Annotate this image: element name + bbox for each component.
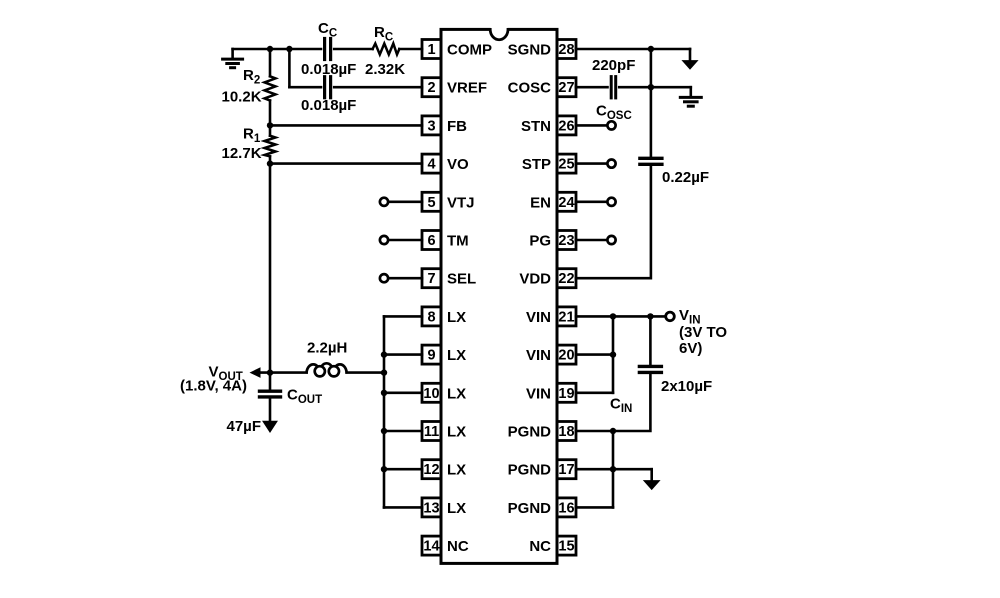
capacitor C022 plate bottom — [640, 163, 662, 166]
pin 18 box — [557, 422, 576, 441]
pin 24 box — [557, 192, 576, 211]
pin 14 box — [422, 536, 441, 555]
svg-text:5: 5 — [427, 195, 435, 211]
wire VO net: node to pin 4 — [270, 162, 422, 165]
svg-text:SEL: SEL — [447, 271, 476, 288]
pin 22 box — [557, 269, 576, 288]
ground arrow below COUT — [264, 422, 277, 432]
wire COMP net: RC to pin 1 — [399, 48, 422, 51]
ground arrow PGND (right) — [645, 469, 659, 489]
node: LX bus pin 9 junction — [381, 351, 387, 357]
pin 4 box — [422, 154, 441, 173]
open terminal circle VIN input — [666, 312, 675, 321]
svg-text:18: 18 — [558, 424, 574, 440]
svg-text:11: 11 — [424, 424, 439, 440]
pin 15 box — [557, 536, 576, 555]
svg-text:7: 7 — [427, 271, 435, 287]
pin 9 box — [422, 345, 441, 364]
wire VO net: vertical down to VOUT node — [269, 164, 272, 373]
svg-text:VREF: VREF — [447, 80, 487, 97]
wire LX node to inductor L1 — [347, 371, 384, 374]
svg-text:PGND: PGND — [508, 424, 552, 441]
svg-text:17: 17 — [558, 462, 574, 478]
svg-text:0.018µF: 0.018µF — [301, 61, 356, 78]
wire VREF net: C2 to pin 2 — [334, 86, 422, 89]
svg-text:23: 23 — [558, 233, 574, 249]
capacitor C220 plate left — [610, 77, 613, 98]
resistor R2 top lead — [269, 49, 272, 76]
wire VDD bypass vertical: SGND node down to 0.22uF — [650, 49, 653, 158]
svg-text:3: 3 — [427, 118, 435, 134]
svg-text:SGND: SGND — [508, 42, 552, 59]
wire STP: pin 25 to open terminal — [576, 162, 607, 165]
pin 25 box — [557, 154, 576, 173]
svg-text:PGND: PGND — [508, 462, 552, 479]
capacitor CC plate right — [329, 39, 332, 60]
pin 3 box — [422, 116, 441, 135]
svg-text:19: 19 — [558, 386, 574, 402]
wire 0.22uF to VDD pin 22 — [576, 164, 651, 278]
open terminal circle pin 7 — [380, 274, 388, 282]
svg-text:NC: NC — [529, 538, 551, 555]
pin 2 box — [422, 78, 441, 97]
wire VREF net: branch to C2 — [289, 86, 321, 89]
node: PGND bus pin 17 junction — [610, 466, 616, 472]
wire PG: pin 23 to open terminal — [576, 239, 607, 242]
wire LX pin 10 stub — [384, 391, 422, 394]
node: VIN bus junction pin 21 — [610, 313, 616, 319]
svg-text:PG: PG — [529, 233, 551, 250]
pin 16 box — [557, 498, 576, 517]
svg-text:COMP: COMP — [447, 42, 492, 59]
svg-text:EN: EN — [530, 194, 551, 211]
svg-text:2.2µH: 2.2µH — [307, 340, 347, 357]
node: PGND bus pin 18 junction — [610, 428, 616, 434]
svg-text:LX: LX — [447, 385, 466, 402]
capacitor COUT plate bottom — [260, 395, 281, 398]
wire VIN bus vertical pins 21-19 — [612, 316, 615, 392]
svg-text:VTJ: VTJ — [447, 194, 475, 211]
inductor L1 (2.2uH) coil — [307, 363, 347, 376]
wire COUT to ground arrow — [269, 397, 272, 422]
node: VIN/CIN cap junction — [647, 313, 653, 319]
node: VIN bus pin 20 junction — [610, 351, 616, 357]
svg-text:PGND: PGND — [508, 500, 552, 517]
capacitor COUT plate top — [260, 390, 281, 393]
svg-text:21: 21 — [558, 309, 574, 325]
node: FB junction — [267, 122, 273, 128]
svg-text:47µF: 47µF — [227, 418, 262, 435]
wire CIN branch vertical: VIN node down to 2x10uF — [649, 316, 652, 366]
pin 26 box — [557, 116, 576, 135]
open terminal circle pin 26 — [607, 121, 615, 129]
pin 6 box — [422, 231, 441, 250]
resistor R2 bottom lead — [269, 101, 272, 126]
pin 13 box — [422, 498, 441, 517]
node: LX bus inductor junction — [381, 369, 387, 375]
pin 7 box — [422, 269, 441, 288]
node: SGND/bypass junction — [648, 46, 654, 52]
svg-text:10: 10 — [423, 386, 439, 402]
svg-text:(3V TO: (3V TO — [679, 324, 727, 341]
svg-text:VIN: VIN — [526, 385, 551, 402]
ground GND1 (top-left earth symbol) — [223, 49, 243, 68]
wire SGND net: pin 28 to corner — [576, 48, 690, 51]
node: COSC/bypass junction — [648, 84, 654, 90]
pin 8 box — [422, 307, 441, 326]
svg-text:LX: LX — [447, 462, 466, 479]
svg-text:NC: NC — [447, 538, 469, 555]
svg-text:22: 22 — [558, 271, 574, 287]
wire COMP net: CC to RC — [334, 48, 372, 51]
node: LX bus pin 12 junction — [381, 466, 387, 472]
svg-text:VO: VO — [447, 156, 469, 173]
svg-text:27: 27 — [558, 80, 574, 96]
svg-text:VIN: VIN — [526, 309, 551, 326]
pin 12 box — [422, 460, 441, 479]
svg-text:4: 4 — [427, 157, 435, 173]
node: LX bus pin 10 junction — [381, 390, 387, 396]
pin 17 box — [557, 460, 576, 479]
wire VIN pin 19 stub — [576, 391, 613, 394]
wire LX pin 11 stub — [384, 430, 422, 433]
svg-text:12.7K: 12.7K — [222, 145, 262, 162]
capacitor CIN plate top — [639, 365, 661, 368]
open terminal circle pin 23 — [607, 236, 615, 244]
svg-text:LX: LX — [447, 424, 466, 441]
node: VO junction — [267, 160, 273, 166]
wire VTJ: pin 5 to open terminal — [388, 201, 422, 204]
svg-text:8: 8 — [427, 309, 435, 325]
capacitor CC plate left — [323, 39, 326, 60]
node: LX bus pin 11 junction — [381, 428, 387, 434]
svg-text:2.32K: 2.32K — [365, 61, 405, 78]
svg-text:LX: LX — [447, 309, 466, 326]
open terminal circle pin 24 — [607, 198, 615, 206]
IC U1 body — [441, 26, 557, 563]
svg-text:VIN: VIN — [526, 347, 551, 364]
svg-text:14: 14 — [423, 539, 439, 555]
svg-text:15: 15 — [558, 539, 574, 555]
wire LX pin 9 stub — [384, 353, 422, 356]
capacitor C022 plate top — [640, 157, 662, 160]
svg-text:16: 16 — [558, 500, 574, 516]
svg-text:12: 12 — [423, 462, 439, 478]
svg-text:STN: STN — [521, 118, 551, 135]
capacitor C2 plate left — [323, 77, 326, 98]
svg-text:2: 2 — [427, 80, 435, 96]
wire 2x10uF to PGND18 — [576, 372, 650, 431]
wire PGND pin 17 stub to ground arrow — [576, 468, 652, 471]
node: COMP/R2/ground junction — [267, 46, 273, 52]
resistor RC zigzag — [373, 44, 400, 55]
wire inductor to VOUT node — [258, 371, 307, 374]
svg-text:0.018µF: 0.018µF — [301, 97, 356, 114]
wire LX bus vertical — [383, 316, 386, 507]
svg-text:13: 13 — [423, 500, 439, 516]
open terminal circle pin 25 — [607, 160, 615, 168]
wire COMP net: ground to CC — [233, 48, 321, 51]
wire TM: pin 6 to open terminal — [388, 239, 422, 242]
wire VOUT node to COUT — [269, 373, 272, 392]
capacitor C2 plate right — [329, 77, 332, 98]
open terminal circle pin 5 — [380, 198, 388, 206]
pin 27 box — [557, 78, 576, 97]
svg-text:220pF: 220pF — [592, 57, 635, 74]
svg-text:VDD: VDD — [519, 271, 551, 288]
wire LX pin 8 stub — [384, 315, 422, 318]
ground GND2 (earth symbol right) — [680, 87, 701, 106]
ground arrow SGND (top right) — [683, 49, 697, 69]
pin 19 box — [557, 383, 576, 402]
wire VREF branch: vertical from COMP node — [288, 49, 291, 87]
svg-text:2x10µF: 2x10µF — [661, 378, 712, 395]
svg-text:20: 20 — [558, 348, 574, 364]
svg-text:0.22µF: 0.22µF — [662, 169, 709, 186]
svg-text:28: 28 — [558, 42, 574, 58]
node: COMP/VREF branch junction — [286, 46, 292, 52]
svg-text:LX: LX — [447, 347, 466, 364]
svg-text:COSC: COSC — [508, 80, 552, 97]
wire SEL: pin 7 to open terminal — [388, 277, 422, 280]
wire EN: pin 24 to open terminal — [576, 201, 607, 204]
wire LX pin 13 stub — [384, 506, 422, 509]
pin 21 box — [557, 307, 576, 326]
wire COSC net: 220pF to earth ground — [619, 86, 691, 89]
wire VIN pin 20 stub — [576, 353, 613, 356]
svg-text:LX: LX — [447, 500, 466, 517]
svg-text:24: 24 — [558, 195, 574, 211]
open terminal circle pin 6 — [380, 236, 388, 244]
svg-text:25: 25 — [558, 157, 574, 173]
wire VIN net: pin 21 to input terminal — [576, 315, 666, 318]
pin 1 box — [422, 40, 441, 59]
svg-text:9: 9 — [427, 348, 435, 364]
svg-text:FB: FB — [447, 118, 467, 135]
wire PGND pin 16 stub — [576, 506, 613, 509]
svg-text:1: 1 — [427, 42, 435, 58]
capacitor CIN plate bottom — [639, 371, 661, 374]
svg-text:(1.8V, 4A): (1.8V, 4A) — [180, 378, 247, 395]
svg-text:6: 6 — [427, 233, 435, 249]
resistor R1 top lead — [269, 125, 272, 135]
pin 28 box — [557, 40, 576, 59]
node: VOUT junction — [267, 369, 273, 375]
pin 11 box — [422, 422, 441, 441]
pin 10 box — [422, 383, 441, 402]
resistor R1 bottom lead — [269, 156, 272, 163]
pin 20 box — [557, 345, 576, 364]
wire STN: pin 26 to open terminal — [576, 124, 607, 127]
svg-text:6V): 6V) — [679, 340, 702, 357]
wire FB net: node to pin 3 — [270, 124, 422, 127]
wire LX pin 12 stub — [384, 468, 422, 471]
resistor R2 zigzag — [265, 76, 276, 100]
pin 23 box — [557, 231, 576, 250]
VOUT arrow head — [250, 367, 261, 378]
svg-text:TM: TM — [447, 233, 469, 250]
wire COSC net: pin 27 to 220pF — [576, 86, 608, 89]
svg-text:10.2K: 10.2K — [222, 88, 262, 105]
resistor R1 zigzag — [265, 136, 276, 157]
svg-text:STP: STP — [522, 156, 551, 173]
svg-text:26: 26 — [558, 118, 574, 134]
pin 5 box — [422, 192, 441, 211]
capacitor C220 plate right — [614, 77, 617, 98]
wire PGND bus vertical pins 18-16 — [612, 431, 615, 507]
